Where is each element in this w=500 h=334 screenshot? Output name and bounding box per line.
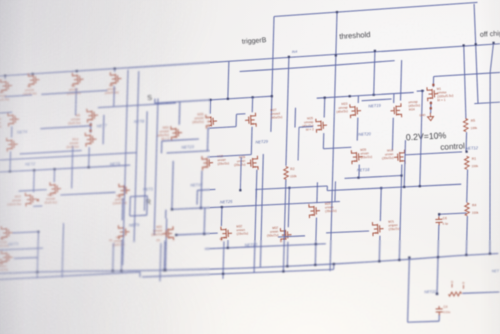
junction M31 railA xyxy=(163,269,165,271)
label C4 value xyxy=(443,310,451,314)
wire R1 R4 xyxy=(466,170,469,203)
label M21 xyxy=(388,219,400,231)
junction M1 d2 xyxy=(430,107,432,109)
junction topbus threshold xyxy=(336,11,338,13)
resistor R4 xyxy=(465,203,470,216)
wire C6 link xyxy=(439,213,466,214)
label M13 xyxy=(112,193,127,205)
wire M22 down xyxy=(286,242,289,267)
transistor M2 xyxy=(72,72,84,87)
junction M1 source xyxy=(432,84,434,86)
label R4 value xyxy=(472,210,479,214)
wire M10 up xyxy=(53,169,55,182)
wire M10 gate rail xyxy=(19,190,47,191)
label R2 xyxy=(290,167,295,171)
wire col 77 down xyxy=(72,146,73,188)
junction M32 top xyxy=(221,206,223,208)
junction M4 bus xyxy=(114,67,116,69)
transistor M4 xyxy=(110,72,122,87)
junction M6 bus xyxy=(4,75,6,77)
junction M26 railA xyxy=(314,264,316,266)
junction IN4 col2 xyxy=(475,43,477,45)
junction M15 d xyxy=(37,199,39,201)
wire NET19 link xyxy=(362,99,392,101)
wire br bottom xyxy=(408,321,440,322)
wire M9 down xyxy=(120,240,123,271)
wire row2 left link xyxy=(0,111,12,114)
transistor M24 xyxy=(390,103,402,118)
transistor M29 xyxy=(247,156,259,171)
label M1 xyxy=(437,86,454,102)
wire rail B2 jog up xyxy=(333,264,335,269)
transistor M28 xyxy=(206,114,218,129)
wire M25 gate up xyxy=(294,108,297,128)
resistor R2 xyxy=(284,166,289,179)
wire M21 down xyxy=(378,236,381,262)
label M5 xyxy=(22,84,37,96)
label R1 xyxy=(472,157,477,161)
wire left col q4 a xyxy=(254,189,256,272)
wire triggerB drop xyxy=(271,16,274,131)
junction rail x377 xyxy=(373,94,375,96)
label M23 xyxy=(336,102,348,114)
wire trigger col xyxy=(286,57,289,165)
junction M8 col b xyxy=(89,130,91,132)
junction g2 xyxy=(203,233,205,235)
wire offchip col2 xyxy=(474,4,478,104)
wire M26 col down xyxy=(314,244,316,265)
wire long vert C xyxy=(144,111,147,210)
transistor M8 xyxy=(87,108,99,123)
junction M9 railA xyxy=(120,270,122,272)
wire R7 right xyxy=(462,292,499,293)
junction M11 out xyxy=(37,231,39,233)
label M20 xyxy=(360,147,372,159)
transistor M32 xyxy=(221,226,232,240)
junction M26 NET10 xyxy=(315,243,317,245)
ground GND xyxy=(427,113,433,121)
wire row3 link xyxy=(20,151,82,154)
wire drop M14 xyxy=(88,147,91,167)
label C6 value xyxy=(443,221,449,225)
wire S rail xyxy=(155,96,272,103)
transistor M22 xyxy=(280,228,291,242)
label M15 xyxy=(7,194,22,206)
junction control R5 xyxy=(465,151,467,153)
wire cross z6 xyxy=(207,155,251,157)
label M25 xyxy=(301,116,314,132)
transistor M10 xyxy=(50,182,61,197)
junction NET16 a xyxy=(357,177,359,179)
wire long vert E xyxy=(165,218,166,270)
label M22 xyxy=(267,226,279,238)
transistor M23 xyxy=(350,104,362,119)
label M8 xyxy=(68,113,81,125)
junction C6 rail xyxy=(438,213,440,215)
junction lineQ M19 xyxy=(403,186,405,188)
wire M26 down xyxy=(315,218,318,245)
label M24 xyxy=(408,100,420,112)
wire row1 gate link xyxy=(41,90,107,94)
wire drop b4 xyxy=(160,243,161,281)
wire M31 down xyxy=(163,241,166,270)
wire M22 up xyxy=(288,188,289,227)
label M7 xyxy=(0,142,1,154)
wire control rail xyxy=(405,152,462,155)
wire M15 right xyxy=(33,205,42,207)
wire M1 gate vert xyxy=(420,91,423,186)
wire R rail NET25 xyxy=(172,202,340,210)
transistor M30 xyxy=(202,156,214,171)
wire latch gate left xyxy=(162,139,199,141)
junction M22 railA xyxy=(286,265,288,267)
wire R2 down xyxy=(283,180,285,272)
wire drop b3 xyxy=(112,243,115,271)
wire NET15 box top xyxy=(197,188,215,191)
junction M30 R rail xyxy=(200,207,202,209)
wire M25 down xyxy=(322,133,324,149)
wire drop b5 xyxy=(223,241,224,279)
junction rail M23 xyxy=(349,95,351,97)
wire drop M4 xyxy=(113,86,116,106)
wire trigger rail xyxy=(240,61,395,72)
wire C6 link up xyxy=(438,214,440,216)
transistor M27 xyxy=(245,113,257,128)
junction R2 railB2 xyxy=(282,270,284,272)
wire jog mid xyxy=(326,186,328,191)
junction S rail M28 xyxy=(209,99,211,101)
capacitor edge xyxy=(0,257,2,266)
junction M21 railA xyxy=(378,260,380,262)
wire M33 up xyxy=(178,102,181,125)
wire long vert D xyxy=(154,98,158,235)
resistor R7 xyxy=(448,292,461,296)
wire NET2 rail xyxy=(0,165,130,172)
wire M21 gate rail xyxy=(326,231,369,233)
wire M25 M20 link xyxy=(323,147,351,149)
transistor M19 xyxy=(394,150,406,165)
flag r2 tick xyxy=(462,285,464,289)
wire drop b1 xyxy=(37,231,38,278)
wire M2 source up xyxy=(76,71,78,72)
wire M8 M14 col xyxy=(90,123,92,133)
junction latch out lineP xyxy=(239,189,241,191)
wire R4 down xyxy=(466,216,467,255)
wire drop M7 xyxy=(9,151,12,171)
junction M25 top xyxy=(324,97,326,99)
junction M22 lineP xyxy=(288,187,290,189)
wire R rail left arm xyxy=(172,161,173,210)
junction M10 top xyxy=(53,168,55,170)
wire M1 source drop xyxy=(432,76,434,87)
wire R5 down xyxy=(465,132,468,152)
label R4 xyxy=(472,203,477,207)
junction M2 bus xyxy=(76,70,78,72)
transistor M21 xyxy=(372,222,383,236)
junction M8 col a xyxy=(90,124,92,126)
junction IN4 col1 xyxy=(463,44,465,46)
junction b5 railB2 xyxy=(222,273,224,275)
junction IN4 col3 xyxy=(492,42,494,44)
wire long vert B xyxy=(134,71,139,242)
label M2 xyxy=(66,83,81,95)
wire offchip col1 xyxy=(464,46,466,119)
wire M33 gate xyxy=(160,141,162,153)
wire M23 down xyxy=(356,118,359,141)
label R1 value xyxy=(471,164,478,168)
junction M5 bus xyxy=(32,73,34,75)
wire R box top xyxy=(130,195,147,198)
wire trigger rail drop M24 xyxy=(401,60,402,100)
transistor M9 xyxy=(118,225,129,239)
junction IN4-threshold xyxy=(335,54,337,56)
junction gate lineQ xyxy=(419,185,421,187)
wire latch out col xyxy=(239,157,242,190)
label M4 xyxy=(104,83,119,95)
label M9 xyxy=(112,235,125,247)
wire M4 source up xyxy=(114,69,116,72)
label M11 xyxy=(0,236,9,248)
junction NET10 a xyxy=(227,247,229,249)
junction B2 jog xyxy=(333,263,335,265)
label M31 xyxy=(151,225,163,237)
junction NET16 b xyxy=(400,174,402,176)
junction railA col3 xyxy=(489,253,491,255)
label M12 xyxy=(0,260,8,272)
wire rail jog xyxy=(139,272,141,277)
wire line Q xyxy=(327,184,461,190)
wire M24 down xyxy=(391,118,394,151)
junction IN4 trigger xyxy=(288,56,290,58)
resistor R1 xyxy=(464,156,469,169)
wire M27 up xyxy=(251,97,253,112)
transistor M25 xyxy=(316,118,328,133)
wire left col q4 b xyxy=(260,154,263,267)
wire threshold drop xyxy=(330,12,337,271)
junction R rail corner xyxy=(171,208,173,210)
label M30 xyxy=(217,154,229,166)
wire top bus xyxy=(274,2,478,16)
wire M15 up xyxy=(33,170,36,192)
wire M31 M32 gates xyxy=(176,233,218,235)
junction g1 xyxy=(175,234,177,236)
label M29 xyxy=(234,155,246,167)
wire row1 drains xyxy=(5,95,32,97)
wire M25 gate lead xyxy=(299,125,313,128)
wire row5 link xyxy=(12,232,38,233)
wire rail B2 xyxy=(142,269,334,276)
wire col 107 xyxy=(102,115,105,144)
label M14 xyxy=(66,137,79,149)
flag r1 tick xyxy=(451,284,453,288)
transistor M15 xyxy=(25,192,36,207)
wire R box left xyxy=(129,197,132,216)
wire row4 link xyxy=(60,192,115,195)
wire M19 col xyxy=(403,155,406,187)
wire cross z2 xyxy=(208,127,236,129)
transistor M20 xyxy=(351,150,363,165)
wire M29 down xyxy=(255,170,258,206)
transistor M14 xyxy=(85,132,97,147)
wire row6 link xyxy=(14,257,38,258)
wire M26 up xyxy=(316,182,319,203)
wire M25 gate col xyxy=(297,127,300,160)
junction NET22 xyxy=(436,293,438,295)
resistor R5 xyxy=(463,118,468,131)
wire drop M8 xyxy=(90,123,92,133)
label M27 xyxy=(270,108,282,120)
junction vertE railA xyxy=(164,269,166,271)
wire NET3 link xyxy=(0,248,43,250)
junction M1 d1 xyxy=(430,102,432,104)
wire M22 gate link xyxy=(278,236,305,237)
label M6 xyxy=(0,90,9,102)
wire rail A (bottom) xyxy=(0,253,498,273)
label M3 xyxy=(0,117,2,129)
junction IN4 x377 xyxy=(374,50,376,52)
wire drop b2 xyxy=(62,223,64,277)
junction railA NET22 xyxy=(437,256,439,258)
wire M24 up xyxy=(393,94,395,103)
junction M15 top xyxy=(33,169,35,171)
label M32 xyxy=(236,224,248,236)
transistor M5 xyxy=(28,73,40,88)
wire M20 down xyxy=(358,165,360,178)
transistor M12 xyxy=(1,250,12,264)
label R2 value xyxy=(290,174,297,178)
wire br up cap xyxy=(438,314,440,321)
wire cross z4 xyxy=(236,113,245,116)
wire NET22 vert xyxy=(437,225,439,294)
wire M30 down xyxy=(201,171,202,208)
wire NET8 rail xyxy=(40,126,90,129)
junction R4 railA xyxy=(465,254,467,256)
junction S feed xyxy=(227,98,229,100)
wire vert150 up xyxy=(154,99,156,104)
transistor M1 xyxy=(427,87,439,102)
wire R box right xyxy=(146,196,149,215)
junction S rail x275 xyxy=(271,95,273,97)
transistor M26 xyxy=(309,204,320,218)
label M28 xyxy=(192,112,204,124)
wire M32 down xyxy=(227,240,229,248)
label M26 xyxy=(325,201,337,213)
transistor M6 xyxy=(1,79,13,94)
wire IN4 bus xyxy=(0,44,500,77)
capacitor C6 xyxy=(435,216,442,225)
wire M1 gate lead xyxy=(417,90,425,92)
wire offchip col3 xyxy=(490,43,494,254)
wire M28 up xyxy=(209,100,211,114)
wire line P xyxy=(255,186,327,190)
wire cross z1 xyxy=(235,114,237,126)
capacitor C4 xyxy=(436,306,443,315)
wire long vert A xyxy=(123,70,128,265)
wire drop M3 xyxy=(11,126,13,137)
wire v131 rail xyxy=(474,102,500,104)
wire NET23 rail xyxy=(166,151,209,153)
label M19 xyxy=(382,148,394,160)
wire cross z5 xyxy=(250,127,253,155)
label M33 xyxy=(157,125,170,141)
transistor M33 xyxy=(171,126,183,141)
wire S feed col xyxy=(228,61,229,99)
label C4 xyxy=(443,305,447,309)
transistor M3 xyxy=(8,112,20,127)
wire rail B1 xyxy=(0,272,140,280)
junction M1 gate xyxy=(421,90,423,92)
wire NET10 rail xyxy=(205,244,326,249)
wire M1 top rail xyxy=(434,72,500,76)
wire cross z3 xyxy=(206,128,209,151)
wire M19 drain up xyxy=(404,140,406,155)
junction NET16 drop railA xyxy=(398,259,400,261)
wire M1 drain down xyxy=(430,101,432,113)
junction NET5 rail xyxy=(88,166,90,168)
wire mid col 341 xyxy=(334,181,337,201)
wire row4 top rail xyxy=(0,153,137,161)
wire M23 up xyxy=(357,96,359,103)
transistor M13 xyxy=(119,183,130,198)
label R5 xyxy=(471,119,476,123)
wire br down xyxy=(408,259,410,322)
label R5 value xyxy=(470,126,477,130)
junction M21 top xyxy=(380,187,382,189)
wire NET19 top rail xyxy=(317,92,414,98)
wire latch top left xyxy=(98,103,176,108)
wire drop M2 xyxy=(75,88,78,115)
wire M32 up xyxy=(220,207,223,226)
junction railA x417 xyxy=(408,256,410,258)
wire NET15 box left xyxy=(196,190,198,204)
transistor M31 xyxy=(162,226,173,240)
label C6 xyxy=(443,216,447,220)
wire R box bottom xyxy=(130,214,147,217)
wire M25 up xyxy=(323,98,326,118)
junction S rail M27 xyxy=(252,96,254,98)
transistor M7 xyxy=(7,137,19,152)
junction NET2 rail xyxy=(9,170,11,172)
junction b1 railA xyxy=(36,271,38,273)
wire M21 up xyxy=(379,188,382,221)
wire M19 down xyxy=(401,164,403,175)
junction R7 left xyxy=(436,293,438,295)
wire M6 source up xyxy=(4,76,6,79)
transistor M11 xyxy=(1,226,12,240)
wire NET16 right drop xyxy=(399,176,401,260)
wire M13 down xyxy=(121,198,124,220)
wire M5 source up xyxy=(32,72,34,75)
wire IN4 x377 drop xyxy=(374,52,375,95)
wire NET25 drop xyxy=(203,208,206,234)
junction b3 railA xyxy=(112,270,114,272)
wire M31 up xyxy=(165,210,167,219)
wire NET16 rail xyxy=(345,176,402,179)
label M10 xyxy=(44,193,57,205)
